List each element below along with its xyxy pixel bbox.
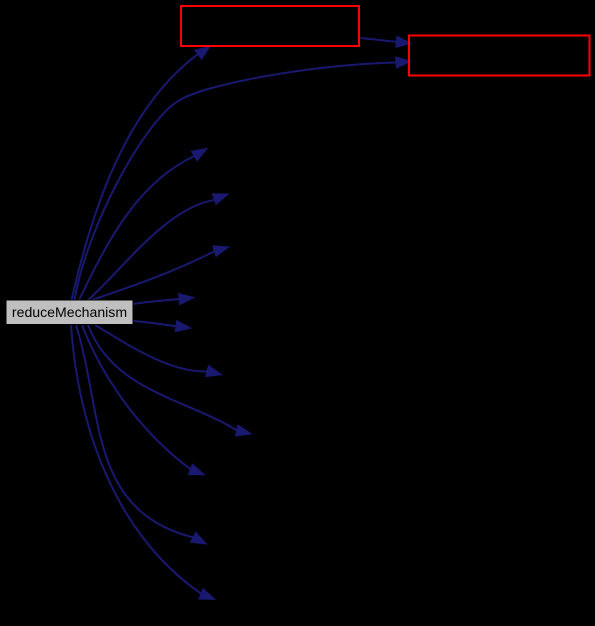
- edge reduceMechanism->node5: [92, 246, 229, 300]
- edge reduceMechanism->node9: [88, 325, 251, 436]
- edge reduceMechanism->node4: [88, 194, 228, 300]
- edge reduceMechanism->node1: [72, 46, 211, 300]
- node1 (truncated, red border): [181, 6, 359, 46]
- edge reduceMechanism->node8: [95, 325, 222, 377]
- edge reduceMechanism->node10: [82, 325, 204, 475]
- edge reduceMechanism->node3: [79, 148, 207, 300]
- node2 (truncated, red border): [409, 36, 590, 76]
- edge reduceMechanism->node2: [75, 57, 412, 300]
- node reduceMechanism: [6, 300, 133, 325]
- edge reduceMechanism->node11: [76, 325, 207, 544]
- edge reduceMechanism->node12: [71, 325, 215, 599]
- edge reduceMechanism->node6: [133, 294, 195, 305]
- edge reduceMechanism->node7: [133, 321, 191, 332]
- edge node1->node2: [361, 36, 412, 47]
- svg-text:reduceMechanism: reduceMechanism: [12, 304, 127, 320]
